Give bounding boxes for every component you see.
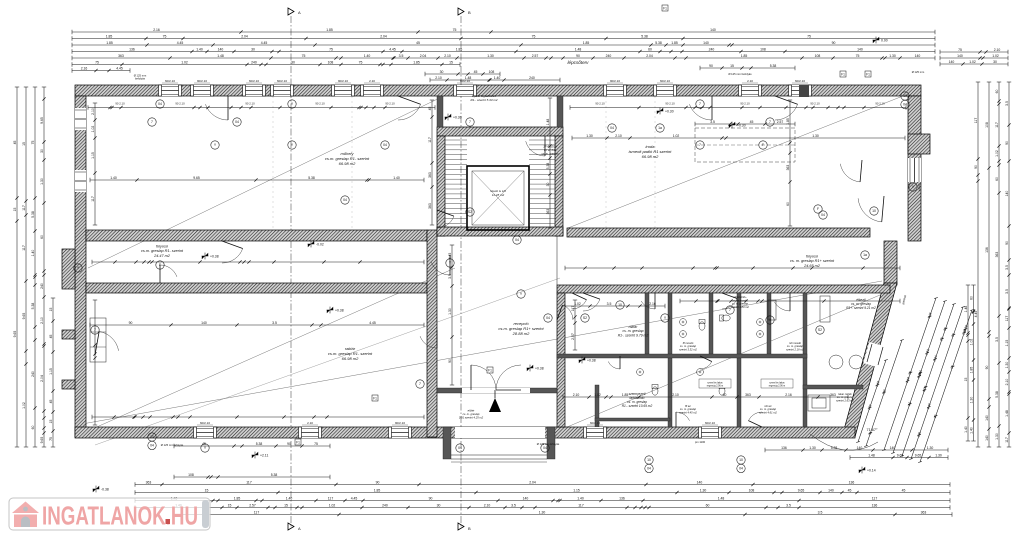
svg-text:90: 90	[974, 165, 978, 169]
svg-text:R1-. szerint 5.33 m2: R1-. szerint 5.33 m2	[470, 98, 497, 102]
svg-text:90: 90	[429, 496, 433, 500]
svg-text:1.85: 1.85	[106, 41, 113, 45]
svg-text:+0.30: +0.30	[737, 123, 746, 127]
svg-text:7: 7	[469, 120, 471, 124]
svg-text:75: 75	[163, 34, 167, 38]
svg-text:4.45: 4.45	[351, 496, 358, 500]
svg-text:04: 04	[235, 120, 239, 124]
svg-text:04: 04	[150, 444, 154, 448]
svg-text:2.04: 2.04	[646, 54, 653, 58]
svg-text:1.40: 1.40	[964, 426, 968, 433]
svg-text:363: 363	[830, 393, 836, 397]
svg-text:240: 240	[382, 503, 388, 507]
svg-text:7: 7	[419, 382, 421, 386]
svg-text:regencig 2.06 m: regencig 2.06 m	[707, 384, 724, 387]
svg-text:30: 30	[993, 60, 997, 64]
svg-text:5.38: 5.38	[256, 442, 263, 446]
svg-text:9.65: 9.65	[13, 331, 17, 338]
svg-text:1a: 1a	[658, 126, 662, 130]
svg-text:1.02: 1.02	[594, 393, 601, 397]
svg-text:90/2.10: 90/2.10	[610, 79, 620, 83]
svg-text:108: 108	[815, 54, 821, 58]
svg-text:75: 75	[958, 48, 962, 52]
svg-text:10: 10	[647, 458, 651, 462]
svg-text:R1-. szerint 9.79 m2: R1-. szerint 9.79 m2	[618, 333, 649, 337]
svg-text:75: 75	[453, 28, 457, 32]
svg-text:5.38: 5.38	[31, 303, 35, 310]
svg-text:71.67°: 71.67°	[866, 428, 878, 432]
svg-text:90: 90	[576, 54, 580, 58]
svg-text:7: 7	[151, 120, 153, 124]
svg-text:90/2.10: 90/2.10	[338, 79, 348, 83]
svg-text:15: 15	[284, 503, 288, 507]
svg-text:24.65 m2: 24.65 m2	[803, 264, 821, 268]
svg-text:9.65: 9.65	[193, 176, 200, 180]
svg-text:90: 90	[287, 442, 291, 446]
svg-text:5.38: 5.38	[31, 211, 35, 218]
svg-text:60: 60	[31, 426, 35, 430]
svg-text:2.10: 2.10	[444, 54, 451, 58]
svg-text:30: 30	[251, 47, 255, 51]
svg-text:1.30: 1.30	[812, 134, 819, 138]
svg-text:363: 363	[921, 510, 927, 514]
svg-text:1.85: 1.85	[583, 41, 590, 45]
svg-text:363: 363	[995, 252, 999, 258]
svg-text:2.10: 2.10	[1005, 379, 1009, 386]
svg-text:1.30: 1.30	[995, 433, 999, 440]
svg-text:60/2.10: 60/2.10	[200, 421, 210, 425]
svg-text:7: 7	[729, 308, 731, 312]
svg-text:pm 1100: pm 1100	[695, 440, 706, 444]
svg-text:108: 108	[760, 47, 766, 51]
svg-text:75: 75	[856, 54, 860, 58]
svg-text:F: F	[159, 263, 161, 267]
svg-text:A: A	[298, 526, 301, 531]
svg-text:F1: F1	[841, 72, 845, 76]
svg-text:1.85: 1.85	[671, 41, 678, 45]
svg-text:240: 240	[606, 54, 612, 58]
svg-text:R1+. szerint 9.21 m2: R1+. szerint 9.21 m2	[846, 306, 876, 310]
svg-text:0.00: 0.00	[881, 38, 888, 42]
svg-text:1.30: 1.30	[448, 308, 452, 315]
svg-text:60/2.10: 60/2.10	[705, 421, 715, 425]
svg-text:szerel és lakos: szerel és lakos	[769, 382, 785, 385]
svg-text:240: 240	[529, 76, 535, 80]
svg-text:117: 117	[328, 496, 334, 500]
svg-text:+2.11: +2.11	[260, 453, 268, 457]
svg-text:1.85: 1.85	[741, 54, 748, 58]
svg-text:1.02: 1.02	[574, 302, 581, 306]
svg-text:108: 108	[985, 122, 989, 128]
svg-text:10: 10	[618, 303, 622, 307]
svg-text:117: 117	[578, 503, 584, 507]
svg-text:2.04: 2.04	[380, 34, 387, 38]
svg-text:04: 04	[647, 467, 651, 471]
svg-text:28.88 m2: 28.88 m2	[512, 331, 530, 336]
svg-text:1.40: 1.40	[494, 76, 501, 80]
svg-text:2.10: 2.10	[435, 76, 442, 80]
svg-text:15: 15	[964, 378, 968, 382]
svg-text:szerint 4.45 m2: szerint 4.45 m2	[679, 410, 697, 414]
svg-text:4.45: 4.45	[116, 66, 123, 70]
svg-text:363: 363	[146, 480, 152, 484]
svg-text:1.02: 1.02	[329, 503, 336, 507]
svg-text:5.38: 5.38	[655, 41, 662, 45]
svg-text:60: 60	[723, 393, 727, 397]
svg-text:140: 140	[697, 480, 703, 484]
svg-text:90: 90	[1005, 241, 1009, 245]
svg-text:7: 7	[769, 120, 771, 124]
svg-text:60: 60	[786, 202, 790, 206]
svg-text:1.02: 1.02	[22, 402, 26, 409]
svg-text:3.5: 3.5	[272, 321, 277, 325]
svg-text:75: 75	[359, 60, 363, 64]
svg-text:15: 15	[228, 503, 232, 507]
svg-text:10: 10	[872, 209, 876, 213]
svg-text:+0.30: +0.30	[453, 115, 462, 119]
svg-text:60/2.10: 60/2.10	[460, 79, 470, 83]
svg-text:9.65: 9.65	[22, 313, 26, 320]
svg-text:3.5: 3.5	[995, 337, 999, 342]
svg-text:1.30: 1.30	[539, 510, 546, 514]
svg-text:9.65: 9.65	[40, 117, 44, 124]
svg-text:1.30: 1.30	[700, 488, 707, 492]
svg-text:140: 140	[523, 496, 529, 500]
svg-text:1.85: 1.85	[456, 47, 463, 51]
svg-text:F: F	[762, 143, 764, 147]
svg-text:szerint 4.61 m2: szerint 4.61 m2	[759, 410, 777, 414]
svg-text:Ø 125 mm lefolyás: Ø 125 mm lefolyás	[161, 443, 184, 447]
svg-text:1.30: 1.30	[969, 397, 973, 404]
svg-text:1.02: 1.02	[995, 150, 999, 157]
svg-text:45: 45	[49, 400, 53, 404]
svg-text:60: 60	[648, 47, 652, 51]
svg-text:90 2.10: 90 2.10	[595, 102, 605, 106]
svg-text:3.5: 3.5	[399, 54, 404, 58]
svg-text:45: 45	[416, 41, 420, 45]
svg-text:+0.30: +0.30	[665, 109, 674, 113]
svg-text:140: 140	[201, 321, 207, 325]
svg-text:363: 363	[118, 54, 124, 58]
svg-text:F1: F1	[663, 6, 667, 10]
svg-text:1.02: 1.02	[992, 54, 999, 58]
svg-text:75: 75	[49, 437, 53, 441]
svg-text:45: 45	[13, 141, 17, 145]
svg-text:S2: S2	[468, 210, 472, 214]
svg-text:30: 30	[546, 183, 550, 187]
svg-text:2.10: 2.10	[615, 134, 622, 138]
svg-text:1.02: 1.02	[181, 60, 188, 64]
svg-text:04: 04	[546, 316, 550, 320]
svg-text:4.45: 4.45	[369, 321, 376, 325]
svg-text:363: 363	[546, 209, 550, 215]
svg-text:S2: S2	[818, 328, 822, 332]
svg-text:2.04: 2.04	[529, 480, 536, 484]
svg-text:240: 240	[40, 283, 44, 289]
svg-text:4.45: 4.45	[448, 253, 452, 260]
svg-text:F: F	[817, 207, 819, 211]
svg-text:9.65: 9.65	[915, 453, 922, 457]
svg-text:2.16: 2.16	[81, 66, 88, 70]
svg-text:66.98 m2: 66.98 m2	[339, 161, 356, 166]
svg-text:1.85: 1.85	[234, 496, 241, 500]
svg-text:4.45: 4.45	[389, 47, 396, 51]
svg-text:2.16: 2.16	[153, 28, 160, 32]
svg-text:0.91 szerint 4.25 m2: 0.91 szerint 4.25 m2	[459, 415, 484, 419]
svg-text:117: 117	[1005, 316, 1009, 322]
svg-text:2.10: 2.10	[573, 393, 580, 397]
svg-text:90 2.10: 90 2.10	[315, 102, 325, 106]
svg-text:1.48: 1.48	[546, 119, 550, 126]
svg-text:1.02: 1.02	[969, 60, 976, 64]
svg-text:45: 45	[49, 335, 53, 339]
svg-text:90 2.10: 90 2.10	[740, 102, 750, 106]
svg-text:9.65: 9.65	[798, 488, 805, 492]
svg-text:2.57: 2.57	[532, 54, 539, 58]
svg-text:szerel és lakos: szerel és lakos	[707, 382, 723, 385]
svg-text:90: 90	[1005, 141, 1009, 145]
svg-text:04: 04	[903, 103, 907, 107]
svg-text:140: 140	[703, 41, 709, 45]
svg-text:4.45: 4.45	[974, 311, 978, 318]
svg-text:R1-. szerint 10.69 m2: R1-. szerint 10.69 m2	[622, 404, 653, 408]
svg-text:117: 117	[428, 137, 432, 143]
svg-text:117: 117	[974, 118, 978, 124]
svg-text:1a: 1a	[863, 253, 867, 257]
svg-text:04: 04	[383, 143, 387, 147]
svg-text:117: 117	[1005, 437, 1009, 443]
svg-text:90: 90	[985, 366, 989, 370]
svg-text:folyosó: folyosó	[156, 244, 168, 248]
svg-text:1.02: 1.02	[969, 339, 973, 346]
svg-text:1.40: 1.40	[31, 250, 35, 257]
svg-text:-0.38: -0.38	[101, 487, 109, 491]
svg-text:90 2.10: 90 2.10	[175, 102, 185, 106]
svg-text:10: 10	[903, 94, 907, 98]
svg-text:1.30: 1.30	[809, 446, 816, 450]
svg-text:B: B	[468, 10, 471, 15]
svg-text:75: 75	[807, 34, 811, 38]
svg-text:1.40: 1.40	[577, 496, 584, 500]
svg-text:45: 45	[428, 107, 432, 111]
svg-text:117: 117	[872, 496, 878, 500]
svg-text:04: 04	[543, 446, 547, 450]
svg-text:04: 04	[821, 213, 825, 217]
svg-text:11.28 m2: 11.28 m2	[492, 193, 505, 197]
svg-text:2.10: 2.10	[307, 421, 313, 425]
svg-text:+0.38: +0.38	[335, 308, 344, 312]
svg-text:10: 10	[150, 435, 154, 439]
svg-text:2.10: 2.10	[40, 317, 44, 324]
svg-text:60/2.10: 60/2.10	[660, 79, 670, 83]
svg-text:90 2.10: 90 2.10	[385, 102, 395, 106]
svg-text:F1: F1	[866, 72, 870, 76]
svg-text:1.85: 1.85	[106, 34, 113, 38]
svg-text:1.30: 1.30	[889, 54, 896, 58]
svg-text:66.98 m2: 66.98 m2	[342, 356, 359, 361]
svg-text:60: 60	[706, 503, 710, 507]
svg-text:60: 60	[40, 235, 44, 239]
svg-text:befolyás: befolyás	[135, 77, 146, 81]
svg-text:-0.02: -0.02	[316, 242, 324, 246]
svg-text:5.38: 5.38	[546, 163, 550, 170]
svg-text:2.57: 2.57	[571, 333, 575, 340]
svg-text:15: 15	[22, 142, 26, 146]
svg-text:108: 108	[749, 488, 755, 492]
svg-text:108: 108	[188, 473, 194, 477]
svg-text:1.85: 1.85	[413, 60, 420, 64]
svg-text:117: 117	[995, 122, 999, 128]
svg-text:3.5: 3.5	[607, 302, 612, 306]
svg-text:140: 140	[1005, 191, 1009, 197]
svg-text:363: 363	[428, 172, 432, 178]
svg-text:140: 140	[957, 54, 963, 58]
svg-text:04: 04	[515, 238, 519, 242]
svg-text:90 2.10: 90 2.10	[245, 102, 255, 106]
svg-text:117: 117	[91, 196, 95, 202]
svg-text:117: 117	[246, 480, 252, 484]
svg-text:10: 10	[739, 458, 743, 462]
svg-text:1.02: 1.02	[673, 134, 680, 138]
svg-text:60/2.10: 60/2.10	[277, 79, 287, 83]
svg-text:2.10: 2.10	[747, 79, 753, 83]
svg-text:75: 75	[302, 54, 306, 58]
svg-text:60: 60	[969, 296, 973, 300]
svg-text:2.10: 2.10	[484, 503, 491, 507]
svg-text:140: 140	[710, 28, 716, 32]
svg-text:60/2.10: 60/2.10	[795, 79, 805, 83]
svg-text:1.48: 1.48	[718, 496, 725, 500]
svg-text:Ø 125 mm: Ø 125 mm	[912, 70, 925, 74]
svg-text:9.65: 9.65	[40, 437, 44, 444]
svg-text:45: 45	[902, 488, 906, 492]
svg-text:1.40: 1.40	[393, 176, 400, 180]
svg-text:szerint 3.32 m2: szerint 3.32 m2	[679, 347, 697, 351]
svg-text:2.04: 2.04	[420, 54, 427, 58]
svg-text:+0.38: +0.38	[210, 254, 219, 258]
svg-text:90: 90	[448, 359, 452, 363]
svg-text:1.30: 1.30	[487, 54, 494, 58]
svg-text:2.16: 2.16	[649, 302, 656, 306]
svg-text:regencig 2.06 m: regencig 2.06 m	[769, 384, 786, 387]
svg-text:60: 60	[995, 90, 999, 94]
svg-text:3.5: 3.5	[448, 274, 452, 279]
svg-text:90: 90	[129, 321, 133, 325]
svg-text:90 2.10: 90 2.10	[115, 102, 125, 106]
svg-text:04: 04	[610, 126, 614, 130]
svg-text:2.04: 2.04	[40, 375, 44, 382]
svg-text:75: 75	[95, 60, 99, 64]
svg-text:140: 140	[985, 435, 989, 441]
svg-text:4.45: 4.45	[177, 41, 184, 45]
svg-text:3.5: 3.5	[818, 510, 823, 514]
svg-text:60: 60	[995, 177, 999, 181]
svg-text:15: 15	[49, 420, 53, 424]
svg-text:136: 136	[781, 446, 787, 450]
svg-text:1.15: 1.15	[573, 488, 580, 492]
svg-text:90 2.10: 90 2.10	[810, 102, 820, 106]
svg-text:90: 90	[832, 41, 836, 45]
svg-text:1.15: 1.15	[1005, 340, 1009, 347]
svg-text:+0.38: +0.38	[587, 358, 596, 362]
svg-text:A: A	[298, 10, 301, 15]
svg-text:15: 15	[449, 60, 453, 64]
svg-text:45: 45	[474, 70, 478, 74]
svg-text:2.10: 2.10	[369, 79, 375, 83]
svg-text:F1: F1	[488, 368, 492, 372]
svg-text:1.40: 1.40	[364, 54, 371, 58]
svg-text:1.02: 1.02	[91, 126, 95, 133]
svg-text:15: 15	[49, 308, 53, 312]
svg-text:1.48: 1.48	[1005, 410, 1009, 417]
svg-text:cs. m. greslap R1+ szerint: cs. m. greslap R1+ szerint	[790, 259, 835, 263]
svg-text:75: 75	[31, 141, 35, 145]
svg-text:30: 30	[437, 503, 441, 507]
svg-text:04: 04	[343, 198, 347, 202]
svg-text:108: 108	[328, 60, 334, 64]
svg-text:5.38: 5.38	[770, 64, 777, 68]
svg-text:117: 117	[22, 205, 26, 211]
svg-text:1.40: 1.40	[196, 47, 203, 51]
svg-text:cs. m. greslap: cs. m. greslap	[542, 151, 559, 155]
svg-text:136: 136	[129, 47, 135, 51]
svg-text:cs.m. greslap R1- szerint: cs.m. greslap R1- szerint	[141, 249, 184, 253]
svg-text:363: 363	[786, 165, 790, 171]
svg-text:15: 15	[13, 208, 17, 212]
svg-text:60/2.10: 60/2.10	[590, 421, 600, 425]
svg-text:15: 15	[730, 64, 734, 68]
svg-text:7: 7	[699, 102, 701, 106]
svg-text:240: 240	[251, 60, 257, 64]
svg-text:5.38: 5.38	[641, 34, 648, 38]
svg-text:2.57: 2.57	[249, 503, 256, 507]
svg-text:140: 140	[828, 488, 834, 492]
svg-text:90 2.10: 90 2.10	[665, 102, 675, 106]
svg-text:140: 140	[218, 47, 224, 51]
svg-text:136: 136	[872, 503, 878, 507]
svg-text:30: 30	[440, 70, 444, 74]
svg-text:1.30: 1.30	[927, 446, 934, 450]
svg-text:B: B	[468, 526, 471, 531]
svg-text:240: 240	[709, 47, 715, 51]
svg-text:+0.38: +0.38	[535, 366, 544, 370]
svg-text:15: 15	[205, 488, 209, 492]
svg-text:+0.14: +0.14	[867, 468, 876, 472]
svg-text:3.5: 3.5	[1005, 289, 1009, 294]
svg-text:66.98 m2: 66.98 m2	[642, 154, 659, 159]
svg-text:04: 04	[458, 446, 462, 450]
svg-text:2.10: 2.10	[994, 48, 1001, 52]
svg-text:24.47 m2: 24.47 m2	[153, 254, 171, 258]
svg-text:140: 140	[949, 60, 955, 64]
svg-text:60/2.10: 60/2.10	[165, 79, 175, 83]
svg-text:117: 117	[571, 306, 575, 312]
svg-text:04: 04	[158, 102, 162, 106]
svg-text:90/2.10: 90/2.10	[197, 79, 207, 83]
svg-text:75: 75	[314, 442, 318, 446]
svg-text:2.16: 2.16	[785, 393, 792, 397]
svg-text:3.5: 3.5	[1005, 101, 1009, 106]
svg-text:3.5: 3.5	[786, 503, 791, 507]
svg-text:45: 45	[848, 488, 852, 492]
svg-text:140: 140	[857, 47, 863, 51]
svg-text:75: 75	[329, 47, 333, 51]
svg-text:5.38: 5.38	[308, 176, 315, 180]
svg-text:117: 117	[22, 245, 26, 251]
svg-text:363: 363	[428, 203, 432, 209]
svg-text:117: 117	[254, 510, 260, 514]
svg-text:1.48: 1.48	[575, 47, 582, 51]
